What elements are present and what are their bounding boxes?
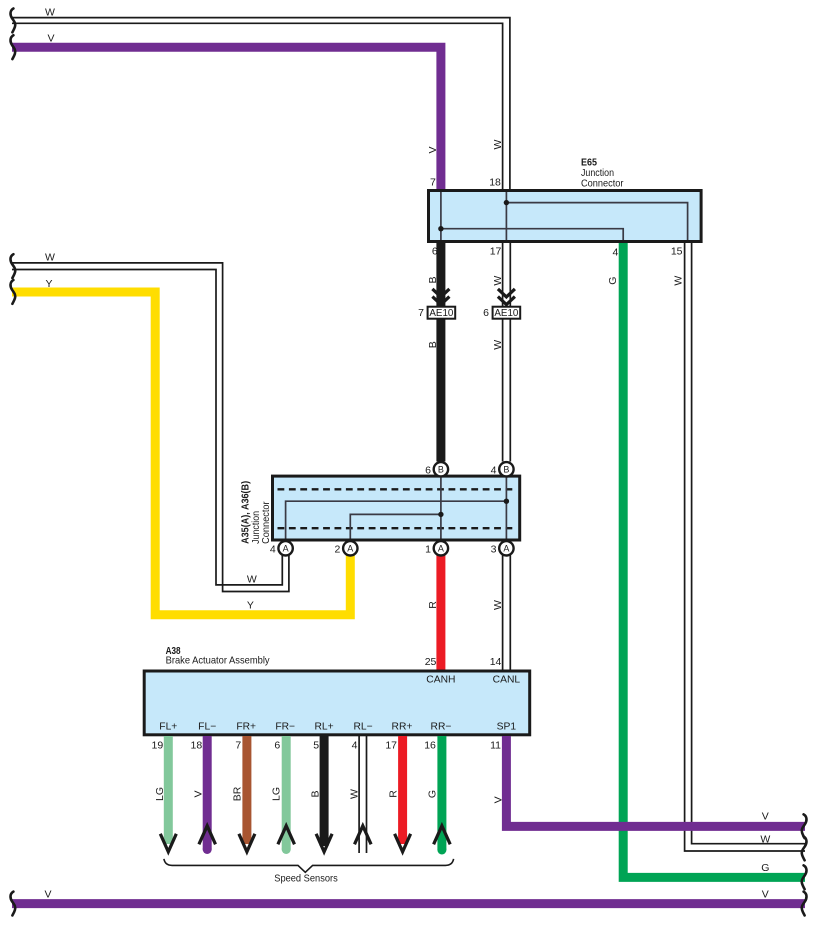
squiggle left W top xyxy=(10,9,15,33)
arrow down RR+ xyxy=(395,834,411,852)
svg-text:Y: Y xyxy=(45,278,52,290)
wire BR sensor FR+ xyxy=(242,736,251,844)
svg-text:Connector: Connector xyxy=(581,177,624,189)
svg-text:R: R xyxy=(427,601,439,609)
svg-text:AE10: AE10 xyxy=(494,308,519,319)
wire W E65 pin 15 down then right to squiggle (white wire) xyxy=(685,242,805,851)
svg-text:A: A xyxy=(503,544,509,554)
svg-text:RR−: RR− xyxy=(431,721,452,732)
svg-text:B: B xyxy=(427,341,439,348)
svg-text:A: A xyxy=(347,544,353,554)
wire G sensor RR- xyxy=(437,736,446,850)
connector AE10 (black wire) pin 7 xyxy=(428,307,456,319)
svg-text:Y: Y xyxy=(247,599,254,611)
arrow down FR+ xyxy=(239,834,255,852)
arrow down FL+ xyxy=(160,834,176,852)
wire G green E65 pin 4 down then right to squiggle xyxy=(623,242,805,877)
svg-text:W: W xyxy=(492,340,504,350)
wire B sensor RL+ xyxy=(320,736,329,846)
squiggle right V (SP1) xyxy=(802,814,807,838)
svg-text:18: 18 xyxy=(191,739,203,751)
svg-text:W: W xyxy=(760,833,770,845)
arrow down RL+ xyxy=(316,834,332,852)
arrow up RL- xyxy=(355,826,372,845)
squiggle right V bottom xyxy=(802,892,807,916)
svg-text:G: G xyxy=(607,277,619,285)
svg-text:18: 18 xyxy=(489,177,501,189)
wire R sensor RR+ xyxy=(398,736,407,844)
squiggle left V top xyxy=(10,35,15,59)
squiggle right W xyxy=(802,837,807,861)
svg-text:15: 15 xyxy=(671,245,683,257)
svg-text:6: 6 xyxy=(425,464,431,476)
A35 internal bus 4(A) to 3(A) line xyxy=(286,501,507,538)
svg-text:W: W xyxy=(349,789,361,799)
squiggle left Y xyxy=(10,280,15,304)
svg-text:W: W xyxy=(492,140,504,150)
wire R red A35 pin 1(A) to A38 pin 25 CANH xyxy=(436,555,445,671)
wire V purple bottom full-width xyxy=(12,899,805,908)
pin 2(A) circle xyxy=(343,541,357,555)
svg-text:A: A xyxy=(438,544,444,554)
svg-text:V: V xyxy=(493,796,505,803)
svg-text:AE10: AE10 xyxy=(429,308,454,319)
A35 internal bus line 6(B)-1(A) xyxy=(440,478,442,539)
squiggle right G xyxy=(802,865,807,889)
A35 dashed separator upper xyxy=(278,488,516,490)
svg-text:FR−: FR− xyxy=(275,721,295,732)
svg-text:V: V xyxy=(762,811,769,823)
svg-text:6: 6 xyxy=(483,307,489,319)
svg-text:19: 19 xyxy=(152,739,164,751)
pin 4(B) circle xyxy=(499,462,513,476)
arrow up RR- xyxy=(434,826,451,845)
svg-text:SP1: SP1 xyxy=(497,721,517,732)
svg-text:B: B xyxy=(438,465,444,475)
wire LG sensor FL+ xyxy=(164,736,173,844)
svg-text:3: 3 xyxy=(491,543,497,555)
svg-text:W: W xyxy=(492,276,504,286)
svg-text:Speed Sensors: Speed Sensors xyxy=(274,873,338,885)
svg-text:W: W xyxy=(492,600,504,610)
E65 internal bus to pin 4 xyxy=(441,229,623,240)
svg-text:A: A xyxy=(283,544,289,554)
pin 3(A) circle xyxy=(499,541,513,555)
svg-text:LG: LG xyxy=(154,787,166,801)
svg-text:17: 17 xyxy=(490,245,502,257)
wire V sensor FL- xyxy=(203,736,212,850)
svg-text:4: 4 xyxy=(270,543,276,555)
junction dot on 6(B)-1(A) line xyxy=(438,512,443,517)
brace Speed Sensors xyxy=(164,859,454,872)
arrow up FL- xyxy=(199,826,216,845)
pin 4(A) circle xyxy=(278,541,292,555)
svg-text:FL+: FL+ xyxy=(159,721,177,732)
junction connector A35(A) A36(B) box xyxy=(273,476,520,540)
svg-text:6: 6 xyxy=(432,246,438,258)
svg-text:FL−: FL− xyxy=(198,721,216,732)
svg-text:RL−: RL− xyxy=(354,721,373,732)
svg-text:RR+: RR+ xyxy=(392,721,413,732)
svg-text:4: 4 xyxy=(612,247,618,259)
svg-text:V: V xyxy=(427,146,439,153)
arrow into AE10 (white wire, double chevron) xyxy=(498,289,515,305)
A35 internal bus line 4(B)-3(A) xyxy=(505,478,507,539)
svg-text:14: 14 xyxy=(490,656,502,668)
svg-text:11: 11 xyxy=(490,739,501,751)
svg-text:V: V xyxy=(762,888,769,900)
svg-text:1: 1 xyxy=(425,543,431,555)
svg-text:17: 17 xyxy=(385,739,397,751)
wire LG sensor FR- xyxy=(282,736,291,850)
svg-text:BR: BR xyxy=(232,786,244,801)
E65 internal bus line pin7-6 xyxy=(440,192,442,240)
svg-text:2: 2 xyxy=(335,543,341,555)
svg-text:16: 16 xyxy=(424,739,436,751)
svg-text:CANH: CANH xyxy=(426,674,455,685)
E65 internal bus to pin 15 xyxy=(506,203,687,240)
wire Y yellow to A35 pin 2(A) xyxy=(12,292,350,615)
wire W top-left horizontal to E65 pin 7 area (white wire, double line) xyxy=(12,18,510,190)
svg-text:B: B xyxy=(310,790,322,797)
svg-text:25: 25 xyxy=(425,656,437,668)
wire W A35 pin 3(A) to A38 pin 14 CANL (white wire) xyxy=(503,555,511,671)
svg-text:4: 4 xyxy=(491,464,497,476)
pin 1(A) circle xyxy=(434,541,448,555)
squiggle left V bottom xyxy=(10,892,15,916)
svg-text:G: G xyxy=(426,790,438,798)
wire W second left horizontal down to A35 pin 4(A) (white wire, double line) xyxy=(12,263,289,592)
svg-text:W: W xyxy=(45,7,55,19)
arrow into AE10 (black wire, double chevron) xyxy=(432,289,449,305)
arrow up FR- xyxy=(278,826,295,845)
svg-text:V: V xyxy=(44,888,51,900)
E65 internal bus line pin18-17 xyxy=(505,192,507,240)
wire B black E65 pin 6 down to A35 pin 6(B) xyxy=(436,242,445,462)
pin 6(B) circle xyxy=(434,462,448,476)
svg-text:W: W xyxy=(45,252,55,264)
svg-text:B: B xyxy=(503,465,509,475)
svg-text:6: 6 xyxy=(274,739,280,751)
junction dot on 4(B)-3(A) line xyxy=(504,499,509,504)
A35 dashed separator lower xyxy=(278,527,516,529)
svg-text:Connector: Connector xyxy=(260,501,272,544)
svg-text:7: 7 xyxy=(235,739,241,751)
wire V purple SP1 down then right to squiggle xyxy=(506,736,805,826)
junction dot on pin18 line xyxy=(504,200,509,205)
svg-text:RL+: RL+ xyxy=(315,721,334,732)
A35 internal bus 2(A) to 1(A) line xyxy=(350,514,441,538)
svg-text:W: W xyxy=(673,276,685,286)
wire W E65 pin 17 down to A35 pin 4(B) (white wire) xyxy=(503,242,511,462)
wire W sensor RL- (white wire) xyxy=(359,736,366,853)
squiggle left W second xyxy=(10,254,15,278)
connector AE10 (white wire) pin 6 xyxy=(493,307,521,319)
svg-text:R: R xyxy=(388,790,400,798)
svg-text:LG: LG xyxy=(271,787,283,801)
junction connector E65 box xyxy=(429,191,702,242)
svg-text:W: W xyxy=(247,573,257,585)
svg-text:Brake Actuator Assembly: Brake Actuator Assembly xyxy=(166,655,271,667)
svg-text:7: 7 xyxy=(418,307,424,319)
junction dot on pin7 line xyxy=(438,226,443,231)
wire V top-left purple to E65 pin 7 xyxy=(12,47,441,190)
svg-text:B: B xyxy=(427,276,439,283)
svg-text:V: V xyxy=(193,790,205,797)
svg-text:5: 5 xyxy=(313,739,319,751)
svg-text:FR+: FR+ xyxy=(236,721,256,732)
svg-text:CANL: CANL xyxy=(493,674,521,685)
svg-text:G: G xyxy=(761,862,769,874)
svg-text:V: V xyxy=(47,33,54,45)
brake actuator A38 box xyxy=(144,671,530,735)
svg-text:4: 4 xyxy=(352,739,358,751)
svg-text:7: 7 xyxy=(430,177,436,189)
